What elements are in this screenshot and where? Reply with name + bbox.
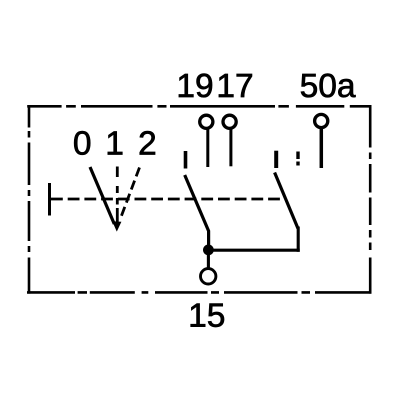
- selector arrowhead: [112, 221, 121, 231]
- wire: terminal 19 stem: [206, 129, 209, 167]
- selector position 0 arm (solid): [90, 167, 114, 224]
- wire: terminal 50a stem: [320, 128, 324, 168]
- fixed contact tick (pole of arm 1): [184, 151, 188, 169]
- wire: junction to terminal 15: [207, 251, 210, 269]
- switch arm 2 (50a pole): [275, 173, 298, 229]
- label 50a: [301, 74, 356, 98]
- switch housing border: bottom edge (dash-dot): [27, 291, 371, 294]
- terminal 17: [223, 115, 236, 128]
- selector position 1 arm (dashed): [116, 167, 119, 223]
- wire: terminal 17 stem: [229, 129, 232, 167]
- terminal 19: [200, 115, 213, 128]
- label 1: [108, 131, 122, 154]
- switch housing border: right edge (dash-dot): [369, 105, 372, 294]
- label 19: [179, 74, 212, 98]
- actuator input bar (left): [48, 183, 51, 216]
- junction dot: [203, 245, 214, 256]
- label 17: [219, 74, 252, 97]
- terminal 50a: [315, 114, 328, 127]
- fixed contact tick (50a side, broken): [296, 152, 299, 166]
- wire: 50a branch vertical: [297, 227, 300, 252]
- label 2: [140, 131, 155, 154]
- switch housing border: top edge (dash-dot): [27, 105, 371, 108]
- selector position 2 arm (dashed): [121, 168, 140, 218]
- switch housing border: left edge (dash-dot): [28, 105, 31, 294]
- switch arm 1 (to terminal 15): [185, 175, 209, 250]
- label 15: [191, 304, 224, 327]
- actuation dashed line: [51, 198, 286, 201]
- wire: junction to 50a branch: [208, 249, 299, 252]
- terminal 15: [201, 269, 216, 284]
- label 0: [74, 131, 90, 155]
- fixed contact tick (pole of arm 2): [274, 151, 278, 168]
